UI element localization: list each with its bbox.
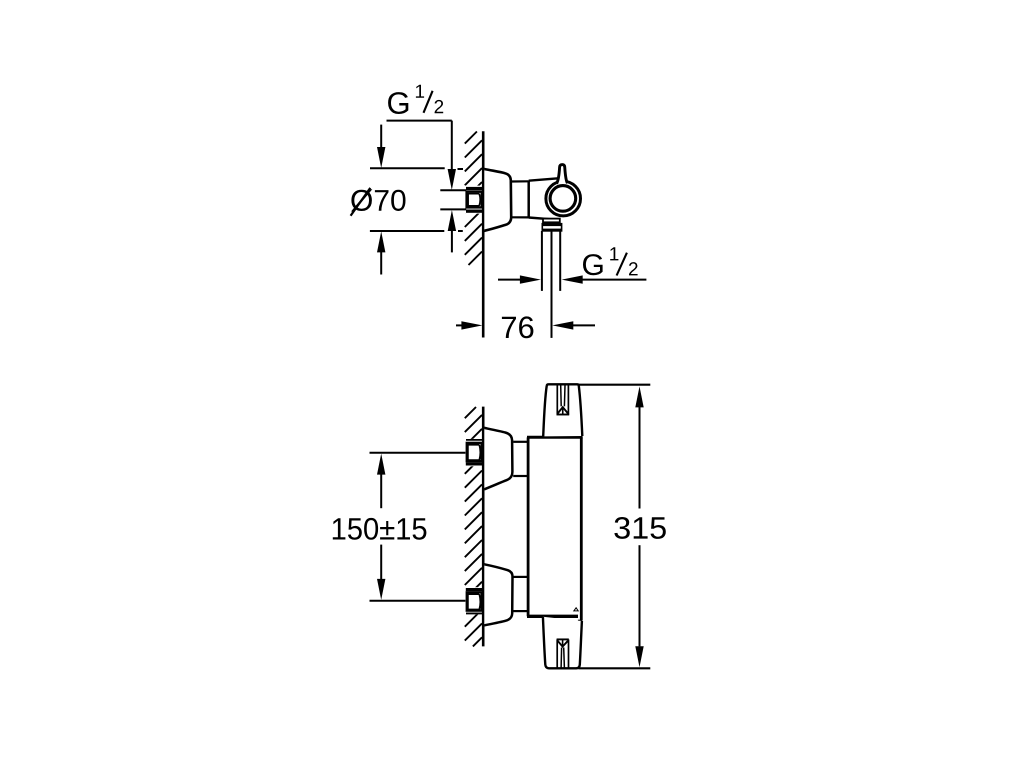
wall hatch (bottom view) bbox=[465, 407, 482, 646]
gasket bar below nut (top view) bbox=[466, 210, 483, 213]
dimension G1/2 (top): right extension w/ arrow to pipe top bbox=[451, 121, 453, 170]
union nut square bottom (bottom view) bbox=[467, 592, 482, 610]
label Ø70 bbox=[351, 189, 406, 211]
bottom cap grip slot bbox=[556, 640, 558, 669]
dimension 315 vertical w/ arrows bbox=[635, 386, 643, 407]
pipe bottom arrow + shaft (x=451.9) bbox=[448, 210, 456, 231]
cylinder bottom fitting (bottom view) bbox=[513, 610, 528, 612]
wall hatch (top view) bbox=[465, 132, 482, 266]
escutcheon cone top (bottom view) bbox=[484, 428, 512, 489]
union nut square (top view) bbox=[467, 192, 482, 208]
hose flange below body (top view) bbox=[543, 219, 560, 223]
handle ring outer circle (top view) bbox=[546, 181, 581, 216]
O70 lower arrow + shaft bbox=[377, 231, 385, 252]
valve body (top view) bbox=[529, 178, 559, 180]
washer line below bottom union bbox=[466, 612, 483, 614]
hose pipe center line / 76-dim extension (top view) bbox=[551, 231, 553, 338]
gasket bar below top union bbox=[466, 463, 483, 466]
ref line top of escutcheon (O70 top) bbox=[370, 167, 445, 169]
top cap (thermostat handle) bbox=[543, 384, 582, 436]
supply line top / 150-dim top extension bbox=[370, 452, 466, 454]
label 76 bbox=[502, 316, 534, 338]
hose pipe below nut (top view) bbox=[541, 231, 543, 291]
supply pipe stub edges (top view) bbox=[440, 189, 466, 191]
label G1/2 (top) bbox=[388, 92, 408, 114]
supply line bottom / 150-dim bottom extension bbox=[370, 600, 466, 602]
dimension 315: top ref line bbox=[579, 384, 651, 386]
gasket bar above bottom union bbox=[466, 588, 483, 591]
body bottom line (cap base) bbox=[527, 615, 578, 618]
top cap grip slot bbox=[556, 385, 558, 414]
gasket bar above nut (top view) bbox=[466, 187, 483, 190]
tiny logo mark on body bbox=[574, 608, 578, 611]
dimension 76 bbox=[456, 324, 463, 326]
dimension 150±15 vertical w/ arrows bbox=[377, 454, 385, 475]
escutcheon cone bottom (bottom view) bbox=[484, 564, 512, 625]
body left edge bbox=[527, 437, 530, 616]
white covers behind unions (bottom view) bbox=[464, 439, 483, 466]
neck cylinder between escutcheon and body (top view) bbox=[512, 180, 529, 182]
hose nut (top view) bbox=[542, 224, 561, 231]
wall face line (bottom view) bbox=[482, 407, 485, 647]
white cover behind union nut (top view) bbox=[464, 186, 483, 214]
wall face line (top view) bbox=[482, 131, 485, 337]
union nut square top (bottom view) bbox=[467, 443, 482, 461]
washer line above top union bbox=[466, 439, 483, 441]
ref line bottom of escutcheon (O70 bottom) bbox=[370, 230, 444, 232]
dimension G1/2 (top): dim line bbox=[387, 120, 452, 122]
escutcheon cone (top view) bbox=[484, 169, 511, 231]
handle pin/lever (top view) bbox=[557, 165, 568, 184]
dimension G1/2 (top): left drop w/ arrow to ref line bbox=[380, 125, 382, 148]
dimension 315: bottom ref line bbox=[579, 667, 651, 669]
dimension G1/2 (right, hose thread) bbox=[498, 279, 521, 281]
cylinder top fitting (bottom view) bbox=[513, 441, 528, 443]
bottom cap (volume handle) bbox=[543, 617, 582, 669]
body right edge bbox=[580, 437, 583, 620]
handle ring inner circle (top view) bbox=[550, 186, 576, 212]
label 150±15 bbox=[333, 518, 427, 540]
label 315 bbox=[614, 517, 665, 539]
label G1/2 (right) bbox=[583, 254, 603, 275]
body top line (cap base) bbox=[527, 436, 583, 439]
